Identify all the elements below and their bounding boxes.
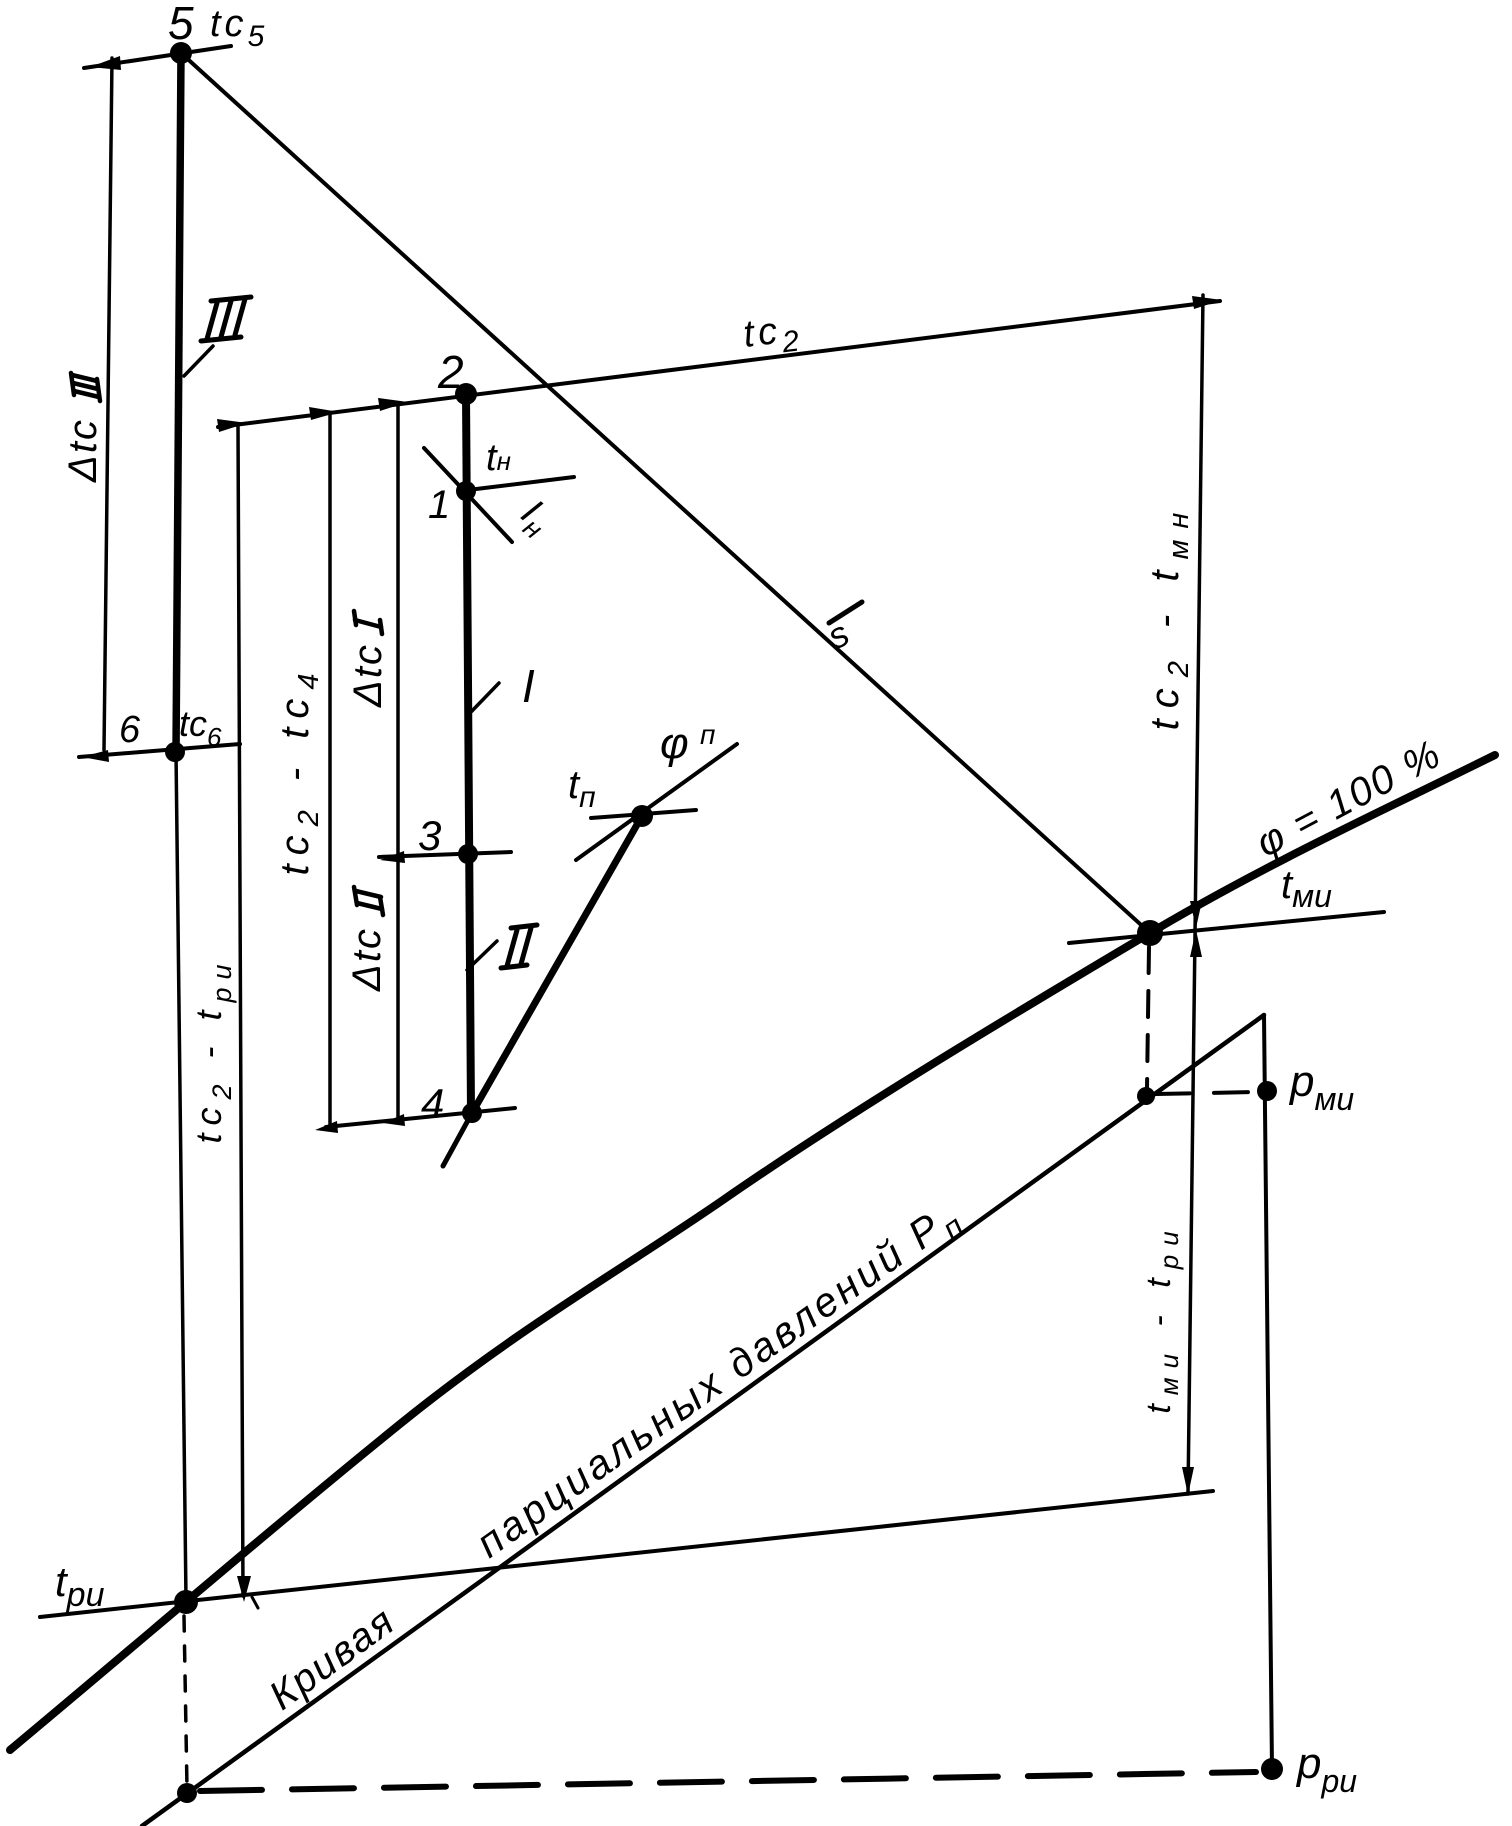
node label tc2-tri rotated xyxy=(188,956,237,1143)
svg-text:tп: tп xyxy=(568,763,596,814)
svg-text:I: I xyxy=(522,660,535,712)
svg-text:парциальных давлений Рп: парциальных давлений Рп xyxy=(468,1191,973,1573)
svg-text:tми: tми xyxy=(1281,863,1332,914)
node label DtcIII rotated xyxy=(61,373,105,483)
node tc2 label xyxy=(741,307,805,364)
node label tmi-tri rotated xyxy=(1140,1222,1184,1413)
node partial pressures label xyxy=(468,1191,973,1573)
node label tc2-tc4 rotated xyxy=(273,664,325,875)
node tp xyxy=(631,805,653,827)
node phi-p label xyxy=(660,719,715,768)
node 3 xyxy=(458,844,478,864)
svg-text:Кривая: Кривая xyxy=(261,1598,403,1718)
svg-text:tc2 - tмн: tc2 - tмн xyxy=(1143,502,1195,731)
svg-text:s: s xyxy=(821,612,856,657)
arrow right end of tc2 baseline xyxy=(1192,296,1222,309)
arrow top of tc2-tri dim xyxy=(217,419,247,432)
svg-text:п: п xyxy=(700,719,715,750)
wire partial pressure line xyxy=(142,1015,1264,1826)
arrow bottom of tc2-tc4 dim xyxy=(315,1121,338,1133)
node 4 xyxy=(462,1103,482,1123)
wire phi=100% saturation curve xyxy=(10,755,1495,1750)
svg-text:tc5: tc5 xyxy=(210,3,268,53)
wire tri isotherm xyxy=(40,1491,1213,1617)
svg-text:tми - tри: tми - tри xyxy=(1140,1222,1184,1413)
node point on pressure line below tmn xyxy=(1137,1087,1155,1105)
arrow bottom at tc4 line xyxy=(383,1114,405,1126)
svg-text:φ: φ xyxy=(660,719,689,768)
node I5 diagonal label xyxy=(821,602,862,657)
wire right dimension line tc2-tmn / tmi-tri (x~1196) xyxy=(1188,295,1203,1494)
svg-text:tри: tри xyxy=(55,1558,105,1614)
wire tp isotherm xyxy=(591,810,696,818)
wire process II line 4 to tp xyxy=(443,1113,472,1166)
wire tmi isotherm through tmn xyxy=(1069,912,1384,943)
wire leader to II xyxy=(467,941,497,970)
arrow top of DtcI dim xyxy=(378,398,408,411)
wire dimension line DtcIII (x~108) xyxy=(104,58,112,750)
arrow pair at tmi isotherm on right dim xyxy=(1190,901,1202,928)
wire leader to I xyxy=(470,683,499,713)
svg-text:5: 5 xyxy=(168,0,194,49)
node 1 xyxy=(456,481,476,501)
svg-text:1: 1 xyxy=(428,483,450,527)
svg-text:tc2 - tри: tc2 - tри xyxy=(188,956,237,1143)
svg-text:pми: pми xyxy=(1288,1057,1354,1117)
node tmn xyxy=(1137,920,1163,946)
node pmi label xyxy=(1288,1057,1354,1117)
node pmi xyxy=(1257,1081,1277,1101)
arrow mid at t3 line xyxy=(380,851,405,863)
wire leader to III xyxy=(184,346,213,376)
node bottom junction point xyxy=(177,1783,197,1803)
wire dashed vertical tmn down xyxy=(1147,947,1149,1088)
wire tc4 line through 4 xyxy=(326,1108,515,1127)
wire dashed bottom horizontal to pri xyxy=(200,1772,1256,1791)
node tp label xyxy=(568,763,596,814)
wire phi-p line through tp xyxy=(576,744,737,860)
node tri label xyxy=(55,1558,105,1614)
wire dashed vertical tri down xyxy=(184,1616,187,1788)
node 6 label xyxy=(119,703,222,752)
node phi=100% label xyxy=(1249,731,1449,865)
arrow top of DtcIII dim xyxy=(90,56,121,70)
node label DtcII rotated xyxy=(345,887,389,992)
wire dimension line tc2-tc4 (x~330) xyxy=(328,414,332,1126)
svg-text:Δtc: Δtc xyxy=(61,418,105,483)
node 6 xyxy=(165,742,185,762)
wire dashed horizontal to pmi xyxy=(1156,1092,1256,1094)
wire tn isotherm through 1 xyxy=(468,477,574,490)
wire dimension line tc2-tri (x~240) xyxy=(238,425,243,1596)
svg-text:tc6: tc6 xyxy=(179,703,222,752)
arrow bottom of DtcIII dim xyxy=(82,750,109,762)
node II process label xyxy=(501,925,537,968)
wire dimension line DtcI/DtcII (x~398) xyxy=(396,406,400,1118)
wire enthalpy line In through 1 xyxy=(424,448,512,542)
wire tc5 isotherm through point 5 xyxy=(84,46,231,68)
svg-text:φ = 100 %: φ = 100 % xyxy=(1249,731,1449,865)
node tri xyxy=(174,1590,198,1614)
wire vertical p line to pri xyxy=(1264,1015,1272,1769)
node 5 xyxy=(170,42,192,64)
wire t3 line through 3 xyxy=(379,852,511,857)
svg-text:tн: tн xyxy=(486,437,511,479)
wire enthalpy diagonal I5 from 5 to t_mn xyxy=(181,53,1150,933)
node label DtcI rotated xyxy=(346,611,390,708)
node In label rotated xyxy=(509,492,559,545)
svg-text:4: 4 xyxy=(421,1080,444,1127)
node 5 label xyxy=(168,0,268,53)
wire thick segment 5-6 xyxy=(176,53,181,752)
arrow bottom of right dim xyxy=(1182,1467,1194,1495)
svg-text:6: 6 xyxy=(119,709,141,751)
wire vertical 6 to t_ri xyxy=(176,752,186,1600)
svg-text:Iн: Iн xyxy=(509,492,559,545)
node tn label xyxy=(486,437,511,479)
node tmi label xyxy=(1281,863,1332,914)
node III roman label xyxy=(201,297,251,341)
node 2 xyxy=(455,383,477,405)
wire thick segment 2-4 xyxy=(466,394,471,1113)
svg-text:Δtc: Δtc xyxy=(346,643,390,708)
node krivaya label xyxy=(261,1598,403,1718)
svg-text:Δtc: Δtc xyxy=(345,927,389,992)
wire tc2 baseline through point 2 xyxy=(218,301,1220,427)
svg-text:3: 3 xyxy=(418,812,441,859)
svg-text:tc2 - tc4: tc2 - tc4 xyxy=(273,664,325,875)
node label tc2-tmn rotated xyxy=(1143,502,1195,731)
node pri xyxy=(1261,1758,1283,1780)
arrow top of tc2-tc4 dim xyxy=(309,407,339,420)
wire tc6 isotherm through point 6 xyxy=(79,744,240,757)
svg-text:pри: pри xyxy=(1295,1739,1357,1799)
arrow bottom of tc2-tri dim xyxy=(237,1576,251,1602)
node pri label xyxy=(1295,1739,1357,1799)
